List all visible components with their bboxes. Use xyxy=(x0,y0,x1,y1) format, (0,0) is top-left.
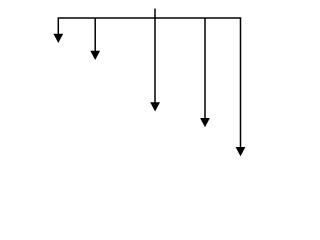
arrow 2 xyxy=(90,18,100,61)
arrow 4 xyxy=(200,18,210,128)
horizontal bus wire xyxy=(58,17,242,19)
arrow 3 xyxy=(150,18,160,112)
top stem wire xyxy=(154,9,156,19)
arrow 5 xyxy=(236,18,246,157)
arrow 1 xyxy=(53,18,63,44)
